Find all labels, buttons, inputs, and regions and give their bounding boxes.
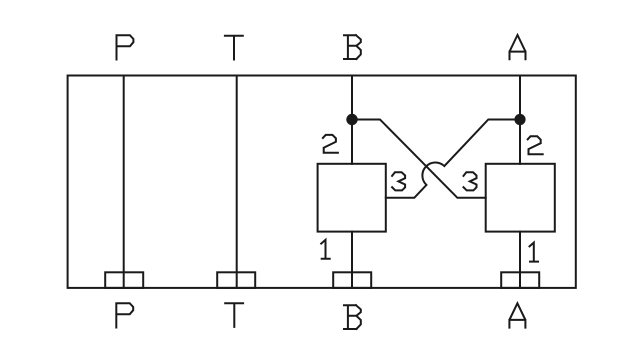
manifold body outline	[68, 76, 576, 288]
port B bottom symbol	[333, 272, 371, 288]
pin label 1 (valve V2)	[530, 243, 539, 262]
wire: node A to valve V1 port 3 (hops over crossing)	[386, 120, 520, 198]
wire: port P line	[123, 76, 125, 288]
node B (junction dot)	[346, 114, 357, 125]
label A (bottom)	[509, 303, 525, 327]
label A (top)	[510, 35, 526, 59]
pin label 3 (valve V1)	[392, 172, 405, 190]
port P bottom symbol	[105, 272, 143, 288]
node A (junction dot)	[514, 114, 525, 125]
label T (top)	[225, 36, 243, 60]
label P (bottom)	[116, 303, 133, 327]
pin label 1 (valve V1)	[321, 240, 330, 259]
label P (top)	[117, 35, 134, 59]
label B (top)	[344, 35, 361, 59]
wire: port A line (top edge to valve V2)	[519, 76, 521, 164]
pin label 3 (valve V2)	[464, 172, 477, 190]
wire: valve V1 port 1 to bottom edge	[351, 232, 353, 288]
pin label 2 (valve V1)	[323, 135, 338, 153]
label B (bottom)	[344, 305, 361, 329]
wire: node B to valve V2 port 3	[352, 120, 486, 198]
label T (bottom)	[225, 303, 243, 327]
valve V2 (right cartridge)	[486, 164, 555, 232]
port T bottom symbol	[217, 272, 255, 288]
wire: port B line (top edge to valve V1)	[351, 76, 353, 164]
port A bottom symbol	[501, 272, 539, 288]
pin label 2 (valve V2)	[528, 136, 543, 154]
wire: valve V2 port 1 to bottom edge	[519, 232, 521, 288]
valve V1 (left cartridge)	[318, 164, 386, 232]
wire: port T line	[236, 76, 238, 288]
